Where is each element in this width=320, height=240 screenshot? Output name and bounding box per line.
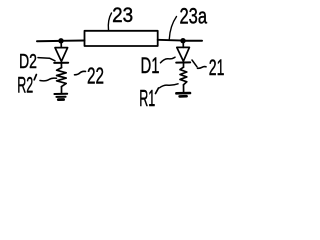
wire: box 23 to right rail: [158, 39, 183, 42]
wire: stem from node to diode D1: [182, 41, 184, 47]
diode D2: triangle: [55, 48, 68, 62]
wire: top rail left segment: [37, 40, 61, 42]
ground (right): [176, 93, 190, 96]
resistor R2': zigzag: [57, 68, 67, 87]
leader for label R2': [40, 78, 57, 81]
leader for label 23: [108, 13, 111, 30]
svg-text:23: 23: [112, 4, 133, 27]
wire: D2 cathode to resistor R2': [60, 63, 62, 68]
wire: stem from node to diode D2: [60, 41, 62, 48]
leader for label D1: [161, 57, 176, 63]
wire: resistor R2' to ground: [61, 87, 63, 94]
diode D1: triangle: [177, 47, 190, 61]
component 23: box: [85, 31, 158, 46]
svg-text:23a: 23a: [180, 3, 208, 28]
svg-text:D1: D1: [141, 53, 160, 78]
prime mark of R2': [34, 75, 36, 80]
resistor R1': zigzag: [180, 67, 187, 85]
leader dash for label 21: [198, 67, 207, 69]
diode D2: cathode bar: [54, 62, 68, 64]
svg-text:R1: R1: [139, 85, 155, 111]
leader for label R1': [160, 84, 179, 88]
svg-text:D2: D2: [19, 51, 37, 73]
svg-text:21: 21: [209, 55, 225, 80]
prime mark of R1': [156, 88, 159, 94]
ground (left): [54, 94, 67, 100]
leader diagonal for label 21: [192, 60, 197, 67]
wire: resistor R1' to ground: [183, 85, 185, 93]
node: junction dot above D1: [180, 38, 185, 43]
wire: D1 cathode to resistor R1': [183, 63, 185, 67]
leader for label D2: [38, 58, 55, 61]
wire: junction to box 23: [61, 40, 85, 42]
leader for label 23a: [169, 17, 176, 40]
svg-text:22: 22: [87, 63, 104, 89]
svg-text:R2: R2: [17, 73, 33, 98]
wire: junction to right end: [183, 40, 202, 42]
node: junction dot above D2: [58, 38, 63, 43]
diode D1: cathode bar: [176, 61, 190, 63]
leader dash for label 22: [75, 71, 86, 75]
